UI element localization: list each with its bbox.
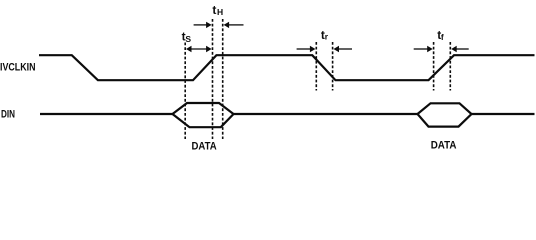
svg-text:t: t xyxy=(212,3,216,17)
svg-text:DATA: DATA xyxy=(431,140,457,152)
svg-text:H: H xyxy=(217,7,223,17)
svg-text:f: f xyxy=(441,32,444,42)
svg-text:DIN: DIN xyxy=(1,109,15,121)
svg-text:IVCLKIN: IVCLKIN xyxy=(0,62,36,74)
svg-text:DATA: DATA xyxy=(192,140,217,152)
svg-text:S: S xyxy=(185,34,191,44)
